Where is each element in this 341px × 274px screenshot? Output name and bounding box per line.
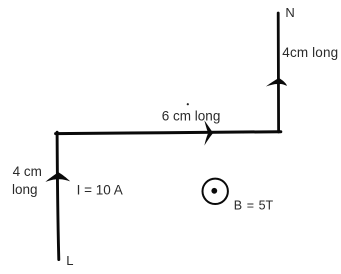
svg-text:L: L — [66, 253, 73, 268]
current arrow on right segment — [266, 78, 287, 87]
svg-text:B = 5T: B = 5T — [234, 199, 274, 213]
wire N segment (right vertical, 4 cm) — [277, 13, 280, 132]
svg-text:4cm long: 4cm long — [282, 45, 338, 60]
wire L segment (left vertical, 4 cm) — [57, 132, 59, 259]
svg-text:N: N — [285, 5, 294, 20]
field symbol B out of page: dot — [211, 188, 217, 194]
wire middle segment (horizontal, 6 cm) — [56, 132, 281, 134]
field symbol B out of page: circle — [203, 179, 228, 204]
svg-text:I = 10 A: I = 10 A — [77, 183, 123, 198]
svg-text:4 cm: 4 cm — [13, 164, 42, 179]
current arrow on middle segment — [204, 120, 213, 132]
svg-text:long: long — [12, 182, 38, 197]
svg-text:6 cm long: 6 cm long — [162, 108, 221, 123]
stray dot above 6 cm long — [187, 103, 189, 105]
current arrow on left segment — [45, 172, 70, 182]
